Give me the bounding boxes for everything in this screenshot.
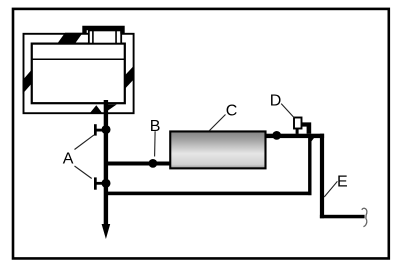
hose end squiggle xyxy=(362,208,367,226)
fitting D elbow xyxy=(302,122,312,133)
label E leader xyxy=(324,181,337,197)
svg-text:E: E xyxy=(337,173,348,190)
fuel tank outer rect xyxy=(24,34,134,113)
down pipe wire xyxy=(320,134,324,219)
filter C cylinder xyxy=(170,131,265,168)
outlet junction dot xyxy=(272,131,281,140)
return line wire xyxy=(104,192,312,196)
riser wire to D junction xyxy=(308,137,311,195)
riser fillet xyxy=(312,138,315,141)
supply branch wire to filter xyxy=(104,162,170,166)
valve A2 xyxy=(94,177,111,189)
filler neck xyxy=(89,30,121,43)
fitting D stem xyxy=(296,128,299,134)
fuel tank hazard stripes xyxy=(22,31,135,114)
filler cap xyxy=(85,28,123,34)
fuel level line xyxy=(32,58,125,60)
label A leader lower xyxy=(75,166,92,179)
label B leader xyxy=(154,131,157,156)
label A leader upper xyxy=(75,135,95,150)
node B junction dot xyxy=(149,159,158,168)
filter outlet wire xyxy=(265,134,324,138)
fuel tank body xyxy=(32,44,125,104)
valve A1 xyxy=(94,124,111,135)
pipe arrowhead xyxy=(102,224,111,239)
svg-text:C: C xyxy=(226,103,238,120)
fitting D body xyxy=(294,118,302,129)
svg-text:D: D xyxy=(270,93,282,110)
main vertical pipe xyxy=(104,100,108,225)
label C leader xyxy=(209,115,226,132)
drain elbow wire xyxy=(320,215,365,219)
label D leader xyxy=(281,104,294,118)
svg-text:A: A xyxy=(63,151,74,168)
